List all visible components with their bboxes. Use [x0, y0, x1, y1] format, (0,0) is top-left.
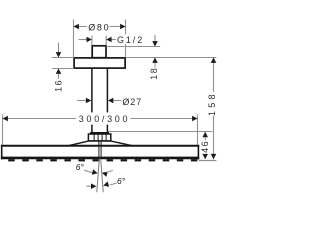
dimension 300/300: label — [79, 114, 130, 124]
spray angle label 6 deg (right) — [117, 176, 126, 186]
dimension G1/2: label — [117, 35, 144, 45]
dimension G1/2: extension lines — [92, 36, 106, 46]
svg-text:18: 18 — [149, 67, 159, 80]
dimension D80: label — [88, 22, 110, 32]
water channel lines through cone and head — [99, 142, 101, 160]
dimension 46: arrows — [202, 132, 208, 160]
dimension D27 (pipe): arrows — [77, 98, 121, 104]
union nut top edge — [90, 132, 109, 134]
dimension G1/2: label mask — [116, 34, 145, 44]
dimension 16: arrows — [56, 43, 62, 79]
svg-text:Ø80: Ø80 — [88, 22, 110, 32]
dimension 300/300: extension lines — [3, 114, 198, 144]
svg-text:6°: 6° — [117, 176, 126, 186]
dimension 300/300: dimension line with arrows — [3, 116, 198, 122]
svg-text:300/300: 300/300 — [79, 114, 130, 124]
spray angle leader right with arrow — [103, 181, 116, 186]
dimension 300/300: label mask — [76, 112, 130, 124]
dimension 46: extension line at nut top level — [108, 131, 212, 133]
dimension D27: label — [122, 97, 142, 107]
dimension D80: dimension line with arrows — [74, 24, 126, 30]
spray angle arrow upper right, pointing left — [102, 170, 113, 177]
dimension 16: label (rotated) — [54, 79, 64, 92]
nozzle dashes on spray face — [8, 159, 197, 161]
G1/2 fitting (threaded connector on top of plate) — [92, 46, 106, 58]
cone (connector flare onto head) — [66, 141, 135, 146]
spray angle label 6 deg (left) — [76, 162, 85, 172]
bottom extension line for 46 and 158 — [199, 160, 217, 162]
dimension 16 (plate thickness): extension lines — [52, 58, 74, 69]
svg-text:6°: 6° — [76, 162, 85, 172]
spray angle leader left with arrow — [84, 169, 98, 174]
svg-text:16: 16 — [54, 79, 64, 92]
shower head slab (300x300 overhead shower, side view) — [1, 145, 199, 160]
pipe (connection tube, D27) — [92, 68, 108, 133]
spray angle arrow lower left, pointing right — [86, 183, 96, 189]
dimension 46: label (rotated) — [200, 140, 210, 153]
spray lines (6 degree jet) — [97, 159, 103, 192]
dimension 18: label (rotated) — [149, 67, 159, 80]
svg-text:158: 158 — [207, 91, 217, 116]
svg-text:46: 46 — [200, 140, 210, 153]
dimension 18 (connector above ceiling): extension lines — [106, 47, 216, 58]
union nut with ribs — [88, 134, 110, 141]
dimension G1/2: arrows — [79, 37, 117, 43]
dimension 158: label (rotated) — [207, 91, 217, 116]
ceiling plate (escutcheon) — [74, 58, 125, 68]
dimension 18: arrows — [152, 35, 158, 67]
dimension 158: dimension line with arrows — [211, 58, 217, 160]
dimension D80: extension lines — [74, 20, 126, 58]
svg-text:G1/2: G1/2 — [117, 35, 144, 45]
svg-text:Ø27: Ø27 — [122, 97, 142, 107]
